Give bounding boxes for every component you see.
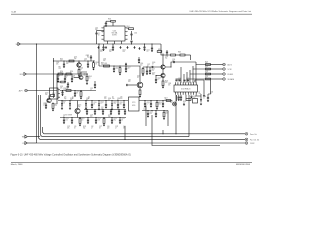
svg-text:0.1: 0.1 xyxy=(80,69,82,71)
svg-text:39p: 39p xyxy=(66,88,68,90)
varactor D102 xyxy=(69,103,71,105)
wire resonator rail xyxy=(58,100,128,102)
wire Q104 emitter xyxy=(139,88,141,90)
capacitor C108 xyxy=(64,78,66,81)
capacitor C126 xyxy=(166,51,168,54)
wire vco feed vertical xyxy=(98,44,100,66)
svg-text:5 Tx: 5 Tx xyxy=(22,143,25,145)
wire Y101 to U103 xyxy=(176,95,178,101)
capacitor C132 above U103 xyxy=(178,79,180,82)
connector P1-4 xyxy=(223,78,226,81)
svg-text:4.7: 4.7 xyxy=(183,102,185,104)
capacitor C151 xyxy=(86,110,88,113)
wire aux line 3b xyxy=(211,73,223,75)
junction bus b xyxy=(98,43,99,44)
capacitor C116 xyxy=(91,104,93,107)
svg-text:4.7: 4.7 xyxy=(147,103,149,105)
resistor R107 xyxy=(66,73,71,75)
transistor Q102 xyxy=(79,76,83,80)
capacitor C118 xyxy=(117,104,119,107)
header rule xyxy=(11,13,252,15)
svg-text:33n: 33n xyxy=(72,77,74,79)
IC U102 regulator xyxy=(50,88,59,99)
ground Q101 emitter xyxy=(78,74,80,75)
resistor R125 below U103 xyxy=(186,99,191,101)
junction bus c xyxy=(144,43,145,44)
svg-text:220: 220 xyxy=(114,103,116,105)
svg-text:39p: 39p xyxy=(83,127,85,129)
shield module M101 xyxy=(129,97,140,111)
resistor R114 xyxy=(139,90,141,95)
wire drop x176 xyxy=(175,95,177,134)
svg-text:33n: 33n xyxy=(172,60,174,62)
svg-text:U101: U101 xyxy=(113,31,117,33)
footer rule xyxy=(11,161,252,163)
ground G1 under bus xyxy=(98,46,100,47)
wire R101 to U101 xyxy=(112,22,114,26)
wire filter rail xyxy=(54,60,96,62)
junction dots on middle rail xyxy=(87,109,88,110)
svg-text:4.7: 4.7 xyxy=(91,127,93,129)
wire buffer out xyxy=(165,62,196,67)
resistor R129 xyxy=(61,81,65,83)
svg-text:1K: 1K xyxy=(77,92,79,94)
junction bus-left vertical xyxy=(36,43,37,44)
capacitor C150 xyxy=(138,59,140,62)
resistor R122 series xyxy=(206,68,211,70)
svg-text:39p: 39p xyxy=(165,57,167,59)
wire C103 to bus xyxy=(131,42,133,44)
wire Q105 emitter to lower rail xyxy=(77,114,79,118)
capacitor C109 xyxy=(71,78,73,81)
svg-text:0.1: 0.1 xyxy=(166,113,168,115)
junction dots on vco rail xyxy=(114,66,115,67)
wire above U103 xyxy=(176,78,181,80)
svg-text:220: 220 xyxy=(193,97,195,99)
svg-text:PH BUS: PH BUS xyxy=(228,74,234,76)
svg-text:33n: 33n xyxy=(120,103,122,105)
svg-text:4.7: 4.7 xyxy=(127,27,129,29)
capacitor C133 below U103 xyxy=(180,96,182,99)
wire rail2 drop xyxy=(167,111,169,127)
capacitor C128 xyxy=(155,79,157,82)
capacitor C117 xyxy=(105,104,107,107)
capacitor C156 xyxy=(124,110,126,113)
wire fan vertical f xyxy=(180,67,182,83)
svg-text:0.1: 0.1 xyxy=(203,97,205,99)
varactor D103 xyxy=(85,103,87,105)
wire lock det xyxy=(27,90,57,92)
svg-text:4.7: 4.7 xyxy=(101,103,103,105)
svg-text:33n: 33n xyxy=(168,84,170,86)
wire buffer feed drop xyxy=(190,55,192,60)
svg-text:MOD: MOD xyxy=(132,105,135,107)
connector J101 5V input xyxy=(18,43,21,46)
connector J104 bottom xyxy=(25,135,28,138)
wire drop x152 xyxy=(152,115,220,146)
resistor R123 series xyxy=(206,73,211,75)
svg-text:100: 100 xyxy=(120,98,122,100)
wire drop x189 xyxy=(188,95,190,137)
IC U103 synthesizer xyxy=(174,85,198,92)
wire C102 xyxy=(131,31,133,34)
svg-text:4.7: 4.7 xyxy=(115,127,117,129)
wire Q106-Q107 xyxy=(162,69,164,73)
wire bus bend to buffer feed xyxy=(161,44,170,55)
junction dots buffer xyxy=(167,55,168,56)
capacitor C140 under bus xyxy=(102,46,104,49)
svg-text:39p: 39p xyxy=(60,73,62,75)
svg-text:0.1: 0.1 xyxy=(147,51,149,53)
ground Q104 xyxy=(139,95,141,96)
svg-text:MOD: MOD xyxy=(20,74,23,76)
svg-text:TRB: TRB xyxy=(22,137,25,139)
svg-text:220: 220 xyxy=(65,77,67,79)
svg-text:1K: 1K xyxy=(74,127,76,129)
capacitor C147 xyxy=(94,84,96,87)
connector P1-2 xyxy=(223,68,226,71)
ground G6 under bus xyxy=(139,47,141,48)
connector P1-1 xyxy=(223,63,226,66)
capacitor C110 xyxy=(61,91,63,94)
junction dots divider xyxy=(145,100,146,101)
wire vco rail xyxy=(99,65,135,67)
svg-text:100: 100 xyxy=(84,75,86,77)
capacitor C104 under bus xyxy=(112,46,114,49)
ground synth right xyxy=(203,94,205,95)
wire fan vertical a xyxy=(183,74,185,83)
capacitor C121 xyxy=(71,119,73,122)
svg-text:10K: 10K xyxy=(95,29,97,31)
resistor R102 xyxy=(129,28,134,30)
junction drop x125 xyxy=(124,139,125,140)
svg-text:1K: 1K xyxy=(158,50,160,52)
arrow B+ feed vco xyxy=(125,64,127,68)
svg-text:10K: 10K xyxy=(101,108,103,110)
svg-text:10K: 10K xyxy=(103,60,105,62)
junction vco rail C114 xyxy=(125,65,126,66)
wire Q104 base xyxy=(128,84,137,86)
svg-text:10K: 10K xyxy=(60,87,62,89)
resistor R130 xyxy=(142,69,144,74)
wire adapt line xyxy=(28,136,40,138)
ground Q107 xyxy=(162,86,164,87)
capacitor C152 xyxy=(94,110,96,113)
wire Q103 collector xyxy=(48,96,50,99)
svg-text:9R61: 9R61 xyxy=(104,23,107,25)
svg-text:March, 2006: March, 2006 xyxy=(11,163,23,166)
svg-text:100: 100 xyxy=(128,81,130,83)
svg-text:1K: 1K xyxy=(99,127,101,129)
junction bus d xyxy=(151,43,152,44)
transistor Q101 xyxy=(77,63,81,67)
capacitor C131 above U103 xyxy=(175,79,177,82)
capacitor C102 xyxy=(130,33,132,36)
svg-text:0.1: 0.1 xyxy=(128,68,130,70)
capacitor C124 xyxy=(111,119,113,122)
junction dots on filter rails xyxy=(64,61,65,62)
transistor Q103 xyxy=(47,98,51,102)
svg-text:5V RX: 5V RX xyxy=(250,143,254,145)
wire C101 stubs xyxy=(96,31,98,33)
svg-text:220: 220 xyxy=(104,98,106,100)
svg-text:10K: 10K xyxy=(63,102,65,104)
svg-text:4.7: 4.7 xyxy=(43,104,45,106)
svg-text:Figure 6-10. UHF 435-480 MHz: Figure 6-10. UHF 435-480 MHz Voltage Con… xyxy=(11,154,132,157)
junction C103 bus xyxy=(131,43,132,44)
svg-text:100: 100 xyxy=(170,102,172,104)
capacitor C103 xyxy=(130,40,132,43)
capacitor C153 xyxy=(102,110,104,113)
wire r129 xyxy=(57,81,61,83)
svg-text:10K: 10K xyxy=(56,63,58,65)
wire bias vertical xyxy=(56,91,58,105)
connector P2-2 xyxy=(245,138,248,141)
svg-text:1K: 1K xyxy=(70,73,72,75)
svg-text:39p: 39p xyxy=(199,93,201,95)
junction resonator rail xyxy=(98,100,99,101)
junction dots on lower rail xyxy=(64,117,65,118)
capacitor C139 xyxy=(155,113,157,116)
svg-text:5V SF: 5V SF xyxy=(228,69,232,71)
capacitor C135 xyxy=(144,103,146,106)
wire Q107 base stub xyxy=(156,75,161,77)
capacitor C123 xyxy=(95,119,97,122)
wire fan vertical c xyxy=(189,74,191,83)
svg-text:4.7: 4.7 xyxy=(152,63,154,65)
svg-text:39p: 39p xyxy=(87,56,89,58)
wire row2 to row3 xyxy=(56,74,58,91)
transistor Q106 buffer xyxy=(161,65,165,69)
svg-text:33n: 33n xyxy=(109,51,111,53)
IC U101 xyxy=(104,26,125,41)
svg-text:39p: 39p xyxy=(78,106,80,108)
svg-text:0.1: 0.1 xyxy=(137,77,139,79)
wire aux bottom line xyxy=(28,142,37,144)
svg-text:4.7: 4.7 xyxy=(88,98,90,100)
resistor R120 xyxy=(162,81,164,86)
wire D106 feed xyxy=(196,95,201,96)
ground G4 under bus xyxy=(127,46,129,47)
capacitor C125 xyxy=(119,119,121,122)
svg-text:39p: 39p xyxy=(64,98,66,100)
resistor R127 xyxy=(166,100,171,102)
svg-text:220: 220 xyxy=(176,98,178,100)
wire 5V bus xyxy=(21,43,161,45)
resistor R101 xyxy=(111,20,116,22)
svg-text:R118: R118 xyxy=(178,52,181,54)
svg-text:220: 220 xyxy=(159,103,161,105)
capacitor C137 xyxy=(162,103,164,106)
capacitor C113 xyxy=(113,68,115,71)
wire U103 right pin loop xyxy=(195,80,204,94)
box VCOBIC xyxy=(193,99,198,104)
svg-text:1K: 1K xyxy=(210,93,212,95)
connector P2-1 xyxy=(245,132,248,135)
svg-text:33n: 33n xyxy=(165,99,167,101)
wire aux line 3 xyxy=(190,70,211,74)
svg-text:1K: 1K xyxy=(96,63,98,65)
svg-text:10K: 10K xyxy=(67,127,69,129)
connector J102 mod in xyxy=(24,73,27,76)
svg-text:100: 100 xyxy=(150,113,152,115)
wire R101 left feed xyxy=(106,20,111,22)
svg-text:220: 220 xyxy=(100,51,102,53)
svg-text:220: 220 xyxy=(90,116,92,118)
capacitor C146 xyxy=(67,83,69,86)
wire q102 collector xyxy=(81,72,87,76)
varactor D101 xyxy=(61,103,63,105)
svg-text:1K: 1K xyxy=(72,98,74,100)
wire aux line 1 xyxy=(196,62,211,65)
wire drop x125 xyxy=(124,126,126,139)
resistor R124 series xyxy=(206,78,211,80)
svg-text:1K: 1K xyxy=(98,34,100,36)
capacitor C107 xyxy=(57,78,59,81)
svg-text:10K: 10K xyxy=(186,79,188,81)
junction divider xyxy=(151,110,152,111)
wire aux line 2b xyxy=(211,68,223,70)
ground U103 pin2 xyxy=(191,96,193,97)
svg-text:39p: 39p xyxy=(114,119,116,121)
resistor R112 xyxy=(52,104,54,109)
svg-text:100: 100 xyxy=(66,119,68,121)
ground G2 under bus xyxy=(105,46,107,47)
svg-text:10K: 10K xyxy=(205,72,207,74)
wire Q106 base xyxy=(143,66,161,68)
wire Q106 collector xyxy=(162,54,164,65)
resistor R116 xyxy=(103,119,105,124)
svg-text:33n: 33n xyxy=(45,94,47,96)
svg-text:0.1: 0.1 xyxy=(84,60,86,62)
capacitor C106 xyxy=(87,63,89,66)
svg-text:4.7: 4.7 xyxy=(57,77,59,79)
ground R108 xyxy=(86,82,88,83)
ground U103 pin xyxy=(183,103,185,104)
wire U101 bottom pins to bus xyxy=(107,43,109,45)
connector P1-3 xyxy=(223,73,226,76)
capacitor C143 above U103 xyxy=(183,79,185,82)
capacitor C115 xyxy=(125,84,128,86)
wire C101 top to U101 pin xyxy=(97,30,105,32)
svg-text:0.1: 0.1 xyxy=(178,79,180,81)
resistor R104 xyxy=(78,70,80,75)
svg-text:220: 220 xyxy=(152,74,154,76)
ground C129 xyxy=(149,70,151,73)
diode D106 xyxy=(200,99,202,101)
connector J103 lock det xyxy=(25,89,28,92)
junction bus a xyxy=(112,43,113,44)
svg-text:39p: 39p xyxy=(205,77,207,79)
wire left cluster vertical xyxy=(53,58,55,98)
svg-text:L101: L101 xyxy=(104,63,107,65)
wire aux line 2 xyxy=(193,66,211,69)
junction vco feed xyxy=(98,43,99,44)
wire divider rail2 xyxy=(142,110,168,112)
capacitor C127 xyxy=(151,66,154,68)
svg-text:0.1: 0.1 xyxy=(82,119,84,121)
wire divider rail xyxy=(139,100,172,102)
transistor Q104 vco xyxy=(137,82,143,88)
resistor R109 xyxy=(66,90,71,92)
svg-text:33n: 33n xyxy=(101,64,103,66)
wire U101 pin to R102 xyxy=(127,28,130,30)
svg-text:100: 100 xyxy=(59,68,61,70)
capacitor C105 xyxy=(63,63,65,66)
wire presc out line xyxy=(43,127,246,134)
wire lower rail xyxy=(60,117,126,119)
wire synth 5v line xyxy=(39,95,246,139)
svg-text:V. STEER: V. STEER xyxy=(66,115,72,117)
capacitor C120 xyxy=(63,119,65,122)
capacitor C111 xyxy=(74,92,76,95)
crystal Y101 xyxy=(173,102,177,106)
resistor R108 xyxy=(86,76,88,81)
svg-text:4.7: 4.7 xyxy=(158,79,160,81)
svg-text:4.7: 4.7 xyxy=(90,89,92,91)
wire fan vertical b xyxy=(186,79,188,83)
varactor D105 xyxy=(111,104,113,106)
capacitor C149 xyxy=(146,70,148,73)
resistor R119 xyxy=(157,51,162,53)
svg-text:10K: 10K xyxy=(98,119,100,121)
svg-text:100: 100 xyxy=(116,68,118,70)
capacitor C122 xyxy=(87,119,89,122)
svg-text:C102: C102 xyxy=(134,33,137,35)
wire aux line 4 xyxy=(187,72,211,79)
transistor Q105 xyxy=(75,108,80,113)
ground G5 under bus xyxy=(134,46,136,47)
svg-text:39p: 39p xyxy=(74,58,76,60)
resistor R110 xyxy=(80,92,82,97)
wire Q105 base xyxy=(77,101,79,109)
connector J105 bottom xyxy=(25,142,28,145)
capacitor C144 above U103 xyxy=(187,79,189,82)
svg-text:10K: 10K xyxy=(144,109,146,111)
wire Q102 base xyxy=(74,77,79,79)
wire fan vertical d xyxy=(192,69,194,83)
wire filter row2 xyxy=(54,73,89,75)
resistor R128 xyxy=(163,112,165,117)
capacitor C134 xyxy=(207,97,209,100)
wire reg out xyxy=(60,90,96,92)
resistor R117 xyxy=(171,54,176,56)
svg-text:1K: 1K xyxy=(122,119,124,121)
varactor D104 xyxy=(98,104,100,106)
resistor R103 xyxy=(69,60,74,62)
junction Q106 base xyxy=(146,66,147,67)
svg-text:0.1: 0.1 xyxy=(85,108,87,110)
wire left rail vertical xyxy=(36,44,38,142)
capacitor C155 xyxy=(118,110,120,113)
capacitor C138 xyxy=(147,113,149,116)
resistor R106 xyxy=(58,73,63,75)
wire mod in xyxy=(27,73,54,75)
svg-text:UHF 438-470 MHz VCO/Buffer Sch: UHF 438-470 MHz VCO/Buffer Schematic Dia… xyxy=(189,10,251,13)
capacitor C141 under bus xyxy=(143,46,145,49)
svg-text:220: 220 xyxy=(107,127,109,129)
svg-text:0.1: 0.1 xyxy=(205,67,207,69)
wire aux line 1b xyxy=(211,64,223,66)
capacitor C136 xyxy=(150,103,152,106)
transistor Q107 buffer xyxy=(161,73,165,77)
svg-text:220: 220 xyxy=(152,70,154,72)
svg-text:33n: 33n xyxy=(112,98,114,100)
resistor R126 xyxy=(156,102,158,107)
wire synth right vertical xyxy=(208,80,211,94)
junction drop x176 xyxy=(175,133,176,134)
resistor R121 series xyxy=(206,64,211,66)
